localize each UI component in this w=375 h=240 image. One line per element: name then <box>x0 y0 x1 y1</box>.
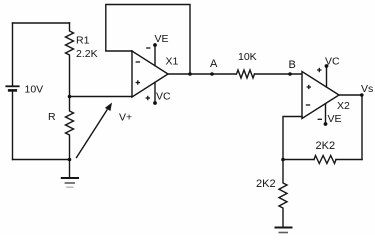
X1 feedback wire output to inverting input <box>106 5 190 75</box>
resistor 2K2 feedback body <box>314 156 336 164</box>
wire left vertical battery top lead <box>12 23 14 85</box>
X1 VC plus sign <box>146 96 150 100</box>
op-amp X2 triangle <box>302 72 339 119</box>
wire ground stem left <box>69 160 71 178</box>
battery V1 plates <box>6 86 18 90</box>
op-amp X1 triangle <box>132 51 168 97</box>
node B <box>288 72 292 76</box>
node A <box>210 72 214 76</box>
X2 output wire to Vs node <box>339 94 362 96</box>
svg-text:VC: VC <box>325 56 340 68</box>
svg-text:VE: VE <box>328 113 342 125</box>
X2 inverting input minus sign <box>306 104 310 106</box>
arrow annotation V+ <box>77 103 113 158</box>
svg-text:B: B <box>289 59 296 71</box>
X2 VC pin dot <box>325 64 329 68</box>
svg-text:V+: V+ <box>119 112 132 124</box>
node X1 output feedback junction <box>188 72 192 76</box>
wire node A/10K to node B and X2 plus input <box>255 73 303 75</box>
ground symbol right <box>276 228 292 233</box>
node X2 inverting junction <box>281 158 285 162</box>
svg-text:10V: 10V <box>25 84 44 96</box>
X2 VE supply pin <box>325 104 327 124</box>
wire node V+ to X1 plus input <box>70 96 133 98</box>
svg-text:R1: R1 <box>76 35 90 47</box>
X2 noninverting input plus sign <box>307 85 311 89</box>
node V+ junction <box>68 95 72 99</box>
X1 output wire to node A <box>168 73 236 75</box>
X1 VE pin dot <box>153 43 157 47</box>
svg-text:X1: X1 <box>166 56 179 68</box>
node Vs <box>360 93 364 97</box>
svg-text:2K2: 2K2 <box>316 140 336 152</box>
X2 VE minus sign <box>318 118 322 120</box>
wire Vs bottom to 2K2 feedback resistor <box>336 159 362 161</box>
resistor 10K body <box>237 70 255 78</box>
svg-text:VE: VE <box>155 33 169 45</box>
X1 VE minus sign <box>146 47 150 49</box>
node ground junction left <box>68 158 72 162</box>
svg-text:10K: 10K <box>238 51 257 63</box>
resistor R body <box>66 97 74 160</box>
ground symbol left <box>62 178 78 187</box>
wire top-left from battery top to R1 top <box>13 22 70 24</box>
X2 VE pin dot <box>324 122 328 126</box>
svg-text:VC: VC <box>156 91 171 103</box>
wire 2K2 feedback to node at X2 inverting <box>283 159 314 161</box>
resistor 2K2 lower body <box>279 160 287 227</box>
X1 VC pin dot <box>153 101 157 105</box>
polarity signs <box>136 48 322 119</box>
svg-text:2K2: 2K2 <box>256 178 276 190</box>
resistor R1 body <box>66 23 74 97</box>
X2 VC supply pin <box>326 66 328 87</box>
wire Vs node down right side <box>361 95 363 160</box>
svg-text:Vs: Vs <box>361 83 373 95</box>
svg-text:A: A <box>210 58 218 70</box>
wire bottom-left to ground node <box>13 159 70 161</box>
wire battery bottom lead down left side <box>12 91 14 160</box>
svg-text:2.2K: 2.2K <box>76 48 98 60</box>
X1 inverting input minus sign <box>136 61 140 63</box>
X1 noninverting input plus sign <box>136 80 140 84</box>
X2 VC plus sign <box>317 68 321 72</box>
X1 VC supply pin <box>154 83 156 104</box>
wire X2 inverting input down to node <box>283 117 302 160</box>
svg-text:X2: X2 <box>337 100 350 112</box>
svg-text:R: R <box>48 111 56 123</box>
X1 VE supply pin <box>154 45 156 66</box>
